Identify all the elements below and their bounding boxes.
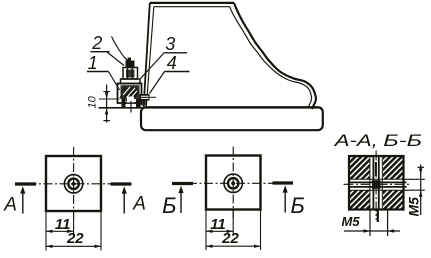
section square outline <box>349 156 404 210</box>
svg-text:3: 3 <box>165 34 175 54</box>
view B extension lines <box>206 210 261 251</box>
svg-text:А: А <box>132 194 146 215</box>
view A hole <box>64 175 82 193</box>
assembly anchor line <box>130 101 132 113</box>
svg-text:А: А <box>3 195 17 216</box>
machine column left edge <box>144 3 154 107</box>
callout 1 <box>87 53 120 90</box>
section vertical thread channel <box>370 156 382 210</box>
svg-text:22: 22 <box>221 230 239 247</box>
view A dimension 11 <box>46 216 74 233</box>
machine column right S-curve <box>230 3 316 109</box>
svg-text:Б-Б: Б-Б <box>383 131 422 150</box>
machine column top edge <box>150 3 234 7</box>
assembly cap screw <box>128 58 132 62</box>
assembly collar <box>121 79 141 84</box>
view A extension lines <box>46 211 101 251</box>
assembly side screw <box>140 94 157 101</box>
svg-text:А-А,: А-А, <box>333 131 377 150</box>
view B hole <box>224 174 242 192</box>
section M5 bottom dimension <box>342 210 401 237</box>
machine bed line <box>99 107 323 109</box>
view B centerlines <box>188 147 279 218</box>
svg-text:22: 22 <box>66 230 84 247</box>
svg-text:10: 10 <box>87 95 99 108</box>
section arrow B left <box>162 184 193 219</box>
dimension 10 <box>87 85 120 123</box>
view B dimension 22 <box>206 230 261 248</box>
assembly bushing <box>123 68 138 80</box>
view B dimension 11 <box>206 216 233 233</box>
section arrow A right <box>111 184 146 215</box>
svg-text:Б: Б <box>291 193 305 218</box>
view A centerlines <box>28 147 120 218</box>
section arrow B right <box>273 183 305 218</box>
svg-text:4: 4 <box>167 53 177 73</box>
view A square plate <box>46 156 101 211</box>
section horizontal thread channel <box>349 179 407 190</box>
svg-text:1: 1 <box>88 53 98 73</box>
svg-text:М5: М5 <box>406 197 422 217</box>
svg-text:2: 2 <box>91 33 102 53</box>
callout 3 <box>141 34 188 79</box>
svg-text:М5: М5 <box>342 214 361 229</box>
callout 4 <box>150 53 190 94</box>
callout 2 <box>91 33 129 66</box>
section arrow A left <box>3 184 36 216</box>
section centerlines <box>344 151 410 221</box>
view B square plate <box>206 156 261 210</box>
svg-text:Б: Б <box>162 193 176 218</box>
machine base plate <box>141 107 323 130</box>
section center blob <box>372 180 381 189</box>
section M5 right dimension <box>404 165 425 217</box>
assembly body <box>118 84 147 108</box>
section hatched quadrants <box>350 157 403 209</box>
view A dimension 22 <box>46 230 101 248</box>
